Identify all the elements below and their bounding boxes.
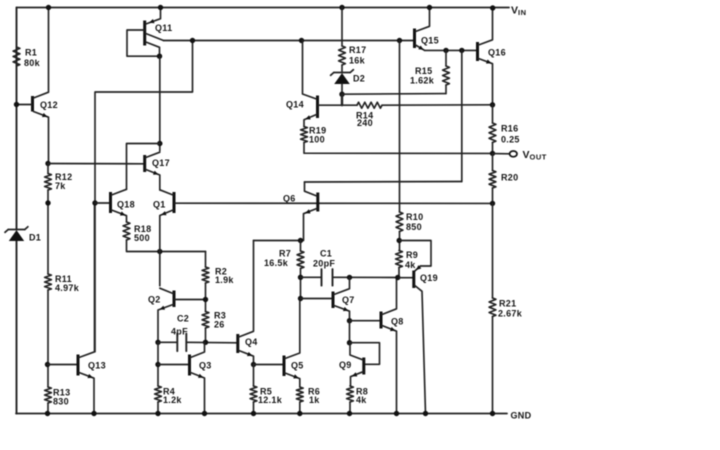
wire R3-C2node bbox=[205, 328, 207, 342]
node R6-GND bbox=[297, 411, 302, 416]
svg-text:4k: 4k bbox=[405, 260, 416, 270]
wire R9-base bbox=[398, 268, 400, 278]
wire R19-VOUT bbox=[304, 143, 493, 154]
node Q17c-Q18c bbox=[157, 141, 162, 146]
wire VOUT stub bbox=[493, 153, 510, 155]
wire R18-out bbox=[127, 240, 206, 252]
resistor R18 bbox=[123, 222, 151, 243]
transistor Q7 bbox=[333, 277, 355, 320]
terminal VOUT circle bbox=[510, 151, 517, 157]
wire R20-node bbox=[492, 188, 494, 203]
wire R17 top lead bbox=[341, 8, 343, 47]
svg-text:V: V bbox=[523, 149, 530, 161]
svg-text:OUT: OUT bbox=[530, 153, 547, 162]
node y40-Q14c bbox=[299, 38, 304, 43]
node Q11 c2-base bbox=[157, 54, 162, 59]
wire Q2e-Q3base bbox=[157, 342, 159, 386]
transistor Q14 bbox=[286, 41, 318, 127]
svg-text:GND: GND bbox=[511, 411, 532, 421]
svg-text:26: 26 bbox=[214, 320, 225, 330]
svg-text:R1: R1 bbox=[25, 48, 37, 58]
svg-text:Q18: Q18 bbox=[117, 200, 135, 210]
svg-text:20pF: 20pF bbox=[313, 259, 335, 269]
wire R5-GND bbox=[253, 402, 255, 414]
node Q3 base node bbox=[155, 362, 160, 367]
wire R10-R9 bbox=[399, 232, 401, 251]
node R9-Q19base bbox=[395, 275, 400, 280]
svg-text:R9: R9 bbox=[406, 250, 418, 260]
svg-text:4.97k: 4.97k bbox=[55, 283, 80, 293]
svg-text:C1: C1 bbox=[320, 249, 332, 259]
svg-text:Q14: Q14 bbox=[286, 100, 304, 110]
resistor R8 bbox=[347, 386, 369, 405]
wire Q11-Q17 vert bbox=[159, 56, 161, 151]
resistor R17 bbox=[339, 45, 367, 66]
svg-text:R20: R20 bbox=[501, 173, 518, 183]
wire R21 lead bbox=[492, 203, 494, 298]
transistor Q17 bbox=[145, 152, 170, 190]
wire R16-VOUT bbox=[492, 143, 494, 154]
wire R7-C1node bbox=[300, 269, 302, 299]
resistor R10 bbox=[396, 212, 423, 232]
node Q13 base bbox=[45, 362, 50, 367]
svg-text:Q6: Q6 bbox=[283, 194, 296, 204]
svg-text:240: 240 bbox=[357, 118, 373, 128]
wire left rail upper bbox=[16, 8, 18, 230]
transistor Q18 bbox=[111, 189, 135, 222]
node VOUT bbox=[490, 151, 495, 156]
wire R10 riser bbox=[399, 41, 401, 213]
svg-text:IN: IN bbox=[518, 8, 527, 17]
svg-text:1.2k: 1.2k bbox=[163, 395, 182, 405]
svg-text:Q5: Q5 bbox=[291, 361, 304, 371]
resistor R2 bbox=[202, 267, 234, 286]
wire C2-Q4base bbox=[187, 341, 238, 344]
node R15 top bbox=[443, 48, 448, 53]
node R2-Q2base bbox=[203, 297, 208, 302]
wire C1 left lead bbox=[301, 276, 322, 278]
wire R21-GND bbox=[492, 317, 494, 414]
svg-text:1.62k: 1.62k bbox=[410, 76, 435, 86]
wire left rail lower bbox=[16, 240, 18, 414]
svg-text:12.1k: 12.1k bbox=[258, 395, 283, 405]
label VIN bbox=[511, 5, 527, 17]
transistor Q12 bbox=[17, 8, 58, 164]
svg-text:Q8: Q8 bbox=[391, 317, 404, 327]
wire Q7e-Q9 bbox=[349, 321, 351, 343]
svg-text:830: 830 bbox=[53, 397, 69, 407]
resistor R5 bbox=[250, 386, 283, 405]
wire Q18c link bbox=[127, 144, 160, 190]
wire D2-R14stub bbox=[341, 94, 343, 105]
transistor Q19 bbox=[399, 241, 438, 414]
node R8-GND bbox=[347, 411, 352, 416]
svg-text:C2: C2 bbox=[177, 314, 189, 324]
capacitor C1 bbox=[313, 249, 335, 286]
node D2 bottom bbox=[339, 92, 344, 97]
resistor R7 bbox=[264, 249, 304, 269]
svg-text:D2: D2 bbox=[353, 74, 365, 84]
wire R7 lead bbox=[300, 241, 302, 252]
wire R8-GND bbox=[349, 402, 351, 414]
svg-text:4k: 4k bbox=[356, 395, 367, 405]
wire R20 lead bbox=[492, 154, 494, 171]
wire R12 lead bbox=[47, 164, 49, 174]
wire Q15e-Q16base bbox=[425, 49, 477, 51]
wire C2 left lead bbox=[158, 341, 177, 343]
svg-text:500: 500 bbox=[134, 233, 150, 243]
svg-text:80k: 80k bbox=[24, 58, 41, 68]
node Q6c riser top bbox=[459, 48, 464, 53]
transistor Q8 bbox=[381, 278, 404, 414]
svg-text:R15: R15 bbox=[415, 66, 432, 76]
wire Q7 base bbox=[301, 298, 333, 300]
node Q7e-Q8base bbox=[347, 318, 352, 323]
node Q11e-rail bbox=[158, 5, 163, 10]
wire R4-GND bbox=[157, 402, 159, 414]
resistor R11 bbox=[45, 274, 80, 293]
svg-text:R7: R7 bbox=[279, 249, 291, 259]
wire Q17 base line bbox=[48, 163, 144, 165]
resistor R15 bbox=[410, 66, 449, 86]
transistor Q15 bbox=[415, 8, 439, 51]
wire Q11c2 net bbox=[95, 41, 193, 352]
wire bias line y40 bbox=[164, 40, 414, 42]
svg-text:Q19: Q19 bbox=[420, 273, 438, 283]
node R7-C1 bbox=[298, 275, 303, 280]
node Q6e-R7 bbox=[298, 238, 303, 243]
node R10-R9 bbox=[397, 238, 402, 243]
transistor Q9 bbox=[339, 343, 380, 386]
svg-text:7k: 7k bbox=[55, 181, 66, 191]
resistor R14 bbox=[356, 102, 382, 128]
diode D1 bbox=[5, 227, 41, 243]
resistor R12 bbox=[45, 172, 73, 191]
node R5-GND bbox=[251, 411, 256, 416]
transistor Q13 bbox=[48, 203, 106, 414]
resistor R13 bbox=[45, 387, 71, 407]
node y40-x192 bbox=[190, 38, 195, 43]
svg-text:16.5k: 16.5k bbox=[264, 258, 289, 268]
node Q15c-rail bbox=[427, 5, 432, 10]
svg-text:1.9k: 1.9k bbox=[215, 275, 234, 285]
svg-text:V: V bbox=[511, 5, 518, 17]
transistor Q1 bbox=[153, 190, 174, 252]
wire Q18 base seg bbox=[95, 202, 110, 204]
svg-text:Q4: Q4 bbox=[245, 337, 258, 347]
node rail-Q12base bbox=[14, 102, 19, 107]
resistor R21 bbox=[489, 298, 523, 319]
wire D2-R15 link bbox=[342, 93, 446, 96]
svg-text:R21: R21 bbox=[499, 299, 516, 309]
node Q9 col node bbox=[347, 340, 352, 345]
node R4-GND bbox=[155, 411, 160, 416]
wire Q4e-R5 bbox=[253, 365, 255, 387]
wire VIN rail bbox=[17, 7, 510, 9]
svg-text:Q13: Q13 bbox=[88, 361, 106, 371]
node Q13e-GND bbox=[91, 411, 96, 416]
transistor Q2 bbox=[148, 288, 205, 341]
node Q2e-C2 bbox=[155, 340, 160, 345]
svg-text:Q11: Q11 bbox=[155, 23, 172, 33]
transistor Q3 bbox=[158, 342, 212, 413]
node Q19c-GND bbox=[423, 411, 428, 416]
wire R17-D2 bbox=[341, 65, 343, 73]
svg-text:Q12: Q12 bbox=[40, 100, 58, 110]
resistor R9 bbox=[396, 250, 419, 270]
node R18-Q2c bbox=[157, 249, 162, 254]
wire R11-R13 bbox=[47, 290, 49, 387]
wire Q19 base lead bbox=[399, 277, 413, 279]
node R20-R21 bbox=[490, 201, 495, 206]
svg-text:Q1: Q1 bbox=[153, 200, 166, 210]
transistor Q5 bbox=[284, 299, 304, 387]
node y40-R10 bbox=[397, 38, 402, 43]
transistor Q11 bbox=[127, 8, 172, 57]
wire R2-R3 bbox=[205, 283, 207, 312]
capacitor C2 bbox=[171, 314, 189, 352]
resistor R4 bbox=[155, 386, 183, 405]
node R21-GND bbox=[490, 411, 495, 416]
resistor R3 bbox=[202, 311, 226, 330]
resistor R6 bbox=[296, 387, 320, 406]
wire Q6c riser bbox=[461, 50, 463, 181]
wire R6-GND bbox=[299, 402, 301, 414]
wire GND rail bbox=[16, 413, 507, 415]
resistor R19 bbox=[301, 126, 327, 145]
resistor R16 bbox=[489, 123, 520, 145]
svg-text:Q9: Q9 bbox=[339, 360, 352, 370]
node Q12e-R12 bbox=[45, 161, 50, 166]
node VIN-Q12 bbox=[46, 5, 51, 10]
svg-text:16k: 16k bbox=[349, 56, 366, 66]
wire R14-Q16e bbox=[382, 104, 493, 106]
node Q16e-R16 bbox=[490, 102, 495, 107]
diode D2 bbox=[331, 70, 366, 84]
wire C1-right bbox=[333, 276, 398, 278]
wire Q2c bbox=[159, 252, 161, 286]
resistor R20 bbox=[489, 171, 518, 189]
node R13-GND bbox=[45, 411, 50, 416]
node Q7base-Q5c bbox=[298, 296, 303, 301]
wire Q14 base lead bbox=[318, 104, 357, 106]
wire R2 top bbox=[205, 252, 207, 268]
node Q8e-GND bbox=[394, 411, 399, 416]
svg-text:D1: D1 bbox=[29, 233, 41, 243]
wire Q6c line bbox=[305, 181, 462, 184]
wire Q4c top bbox=[254, 240, 301, 242]
node R12-Q18base bbox=[45, 200, 50, 205]
wire Q5 base line bbox=[254, 364, 284, 366]
svg-text:100: 100 bbox=[309, 135, 325, 145]
svg-text:2.67k: 2.67k bbox=[498, 309, 523, 319]
wire Q8 base bbox=[350, 320, 381, 322]
svg-text:850: 850 bbox=[406, 222, 422, 232]
svg-text:Q15: Q15 bbox=[421, 36, 439, 46]
svg-text:Q16: Q16 bbox=[488, 48, 506, 58]
wire R16 lead bbox=[492, 105, 494, 123]
transistor Q16 bbox=[478, 8, 506, 105]
svg-text:4pF: 4pF bbox=[171, 327, 188, 337]
node Q4e-R5 bbox=[251, 362, 256, 367]
wire R13-GND bbox=[47, 403, 49, 414]
svg-text:R10: R10 bbox=[406, 212, 423, 222]
transistor Q6 bbox=[283, 182, 318, 241]
svg-text:1k: 1k bbox=[309, 395, 320, 405]
wire R12-R11 bbox=[47, 190, 49, 274]
svg-text:Q3: Q3 bbox=[199, 361, 212, 371]
wire R15 bottom bbox=[445, 85, 447, 94]
svg-text:R16: R16 bbox=[501, 124, 518, 134]
svg-text:Q7: Q7 bbox=[342, 295, 355, 305]
node C1-Q7c bbox=[347, 275, 352, 280]
wire D2-node bbox=[341, 84, 343, 94]
node Q16c-rail bbox=[490, 5, 495, 10]
node Q3e-GND bbox=[202, 411, 207, 416]
wire R15 lead bbox=[445, 50, 447, 66]
node C2-R3 bbox=[203, 340, 208, 345]
svg-text:0.25: 0.25 bbox=[501, 135, 520, 145]
svg-text:Q2: Q2 bbox=[148, 295, 161, 305]
label GND bbox=[511, 411, 532, 421]
resistor R1 bbox=[13, 47, 41, 68]
node x95-Q18base bbox=[92, 200, 97, 205]
node rail-R17 bbox=[339, 5, 344, 10]
label VOUT bbox=[523, 149, 547, 162]
svg-text:Q17: Q17 bbox=[152, 158, 170, 168]
svg-text:R17: R17 bbox=[349, 45, 366, 55]
wire base line Q1-Q6-R20 bbox=[175, 202, 493, 204]
transistor Q4 bbox=[238, 241, 258, 365]
